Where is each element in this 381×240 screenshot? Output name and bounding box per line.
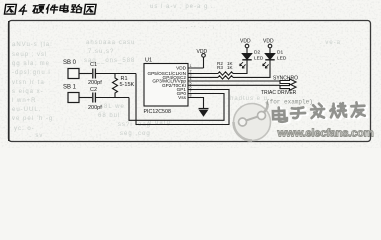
svg-text:VDD: VDD (197, 49, 208, 55)
svg-text:VDD: VDD (176, 66, 187, 71)
capacitor C1 (93, 69, 96, 79)
路 (71, 5, 83, 13)
capacitor C2 (93, 93, 96, 103)
友 (353, 103, 367, 118)
SYNCHRO arrow (280, 79, 296, 85)
IC pin names (147, 66, 186, 101)
发 (313, 105, 327, 119)
svg-text:VDD: VDD (240, 39, 251, 45)
title 图4 硬件电路图 (drawn strokes) (4, 4, 96, 14)
resistor R3 (218, 76, 233, 79)
svg-text:U1: U1 (145, 58, 152, 64)
电 (275, 108, 289, 123)
LED D2 (242, 54, 251, 60)
svg-text:(for example): (for example) (266, 99, 313, 106)
IC U1 box (144, 64, 188, 107)
硬 (32, 5, 44, 13)
烧 (332, 104, 348, 119)
svg-text:5-15K: 5-15K (120, 82, 135, 88)
ground (199, 108, 209, 110)
wire line D to TRIAC (193, 84, 280, 86)
svg-text:LED: LED (277, 56, 287, 62)
友 (351, 102, 365, 117)
子 (291, 107, 306, 118)
svg-text:200pf: 200pf (88, 105, 102, 111)
wire SB1 to C2 (79, 97, 92, 99)
svg-text:C2: C2 (90, 87, 97, 93)
图 (4, 4, 16, 14)
pin stubs 1-8 (188, 68, 204, 98)
svg-text:SYNCHRO: SYNCHRO (273, 76, 298, 82)
svg-text:SB 0: SB 0 (63, 60, 77, 66)
text labels (latin) (63, 39, 313, 115)
pin numbers (190, 64, 192, 98)
wire C2 to corner (96, 97, 129, 99)
watermark logo circle (234, 102, 271, 141)
电 (273, 107, 287, 122)
svg-text:1K: 1K (227, 65, 234, 70)
wire C1 to corner (96, 73, 136, 75)
watermark text 电子发烧友 (275, 103, 367, 123)
svg-text:LED: LED (254, 56, 264, 62)
svg-text:1: 1 (190, 64, 192, 68)
frame border (9, 21, 371, 142)
电 (60, 4, 69, 12)
wire VDD pin up (203, 57, 205, 68)
图 (84, 4, 96, 14)
switch SB1 (68, 93, 79, 103)
svg-text:D1: D1 (277, 50, 283, 56)
烧 (330, 103, 346, 118)
LED D1 arrows (263, 62, 269, 68)
scan noise overlay (0, 0, 381, 148)
switch SB0 (68, 69, 79, 79)
svg-text:8: 8 (190, 94, 192, 98)
LED D2 arrows (240, 62, 246, 68)
schematic (68, 44, 296, 124)
wire R2 to LED D2 (233, 60, 247, 74)
svg-text:TRIAC DRIVER: TRIAC DRIVER (261, 90, 297, 96)
faint bleed-through texture rows (12, 42, 53, 48)
resistor R2 (218, 72, 233, 75)
件 (46, 5, 58, 14)
svg-text:200pf: 200pf (88, 80, 102, 86)
svg-text:SB 1: SB 1 (63, 85, 77, 91)
子 (293, 108, 308, 119)
wire line B to R3 (193, 76, 218, 78)
svg-text:Vss: Vss (178, 95, 186, 100)
resistor R1 vertical (113, 74, 118, 98)
svg-text:D2: D2 (254, 50, 260, 56)
svg-text:R3: R3 (217, 65, 223, 70)
wire inner loop bottom wire to pin GP0 (129, 94, 224, 121)
wire line C to SYNCHRO (193, 80, 280, 82)
LED D1 (265, 54, 274, 60)
VDD symbol above D1 (269, 48, 271, 54)
VDD symbol above D2 (246, 48, 248, 54)
svg-text:www.elecfans.com: www.elecfans.com (277, 127, 374, 139)
wire line A to R2 (193, 73, 218, 75)
svg-text:PIC12C508: PIC12C508 (144, 109, 171, 115)
wire Vss to ground (193, 98, 204, 109)
发 (311, 104, 325, 118)
wire outer loop top wire to pin GP1 (136, 74, 229, 125)
svg-text:VDD: VDD (263, 39, 274, 45)
wire R3 to LED D1 (233, 60, 270, 77)
svg-text:C1: C1 (90, 62, 97, 68)
4 (19, 5, 27, 15)
TRIAC arrow (280, 84, 296, 90)
wire SB0 to C1 (79, 73, 92, 75)
VDD symbol at IC (202, 54, 206, 58)
